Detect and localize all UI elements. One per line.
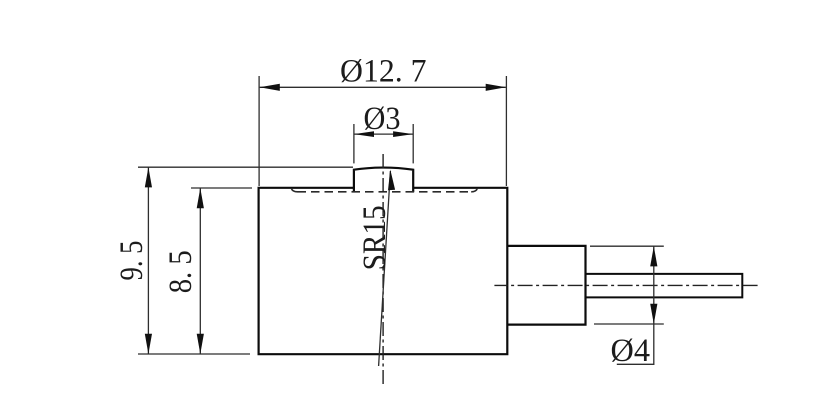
dimension Ø12.7 arrowheads: [260, 84, 280, 91]
dimension Ø3 arrowheads: [354, 131, 374, 137]
dimension Ø4 line with leader tail: [617, 246, 654, 364]
vertical centerline through boss (dash-dot): [382, 153, 384, 384]
dimension 8.5 extension line: [191, 187, 252, 189]
dimension Ø12.7 line: [260, 86, 506, 88]
dimension 9.5 arrowheads: [145, 167, 152, 187]
dimension 8.5 arrowheads: [197, 188, 204, 208]
SR15 leader arrowhead: [388, 170, 395, 191]
boss (top loading button with spherical surface): [354, 168, 413, 193]
dimension 8.5 line: [199, 188, 201, 354]
hidden dashed seam line under top cover: [291, 188, 477, 192]
svg-text:Ø3: Ø3: [364, 101, 401, 137]
svg-text:9. 5: 9. 5: [114, 241, 150, 281]
dimension Ø3 line: [354, 133, 413, 135]
body outline (main housing rectangle): [258, 187, 509, 355]
svg-text:8. 5: 8. 5: [163, 250, 199, 293]
connector (cable bushing rectangle): [507, 246, 585, 325]
svg-text:Ø4: Ø4: [611, 333, 651, 369]
svg-text:Ø12. 7: Ø12. 7: [340, 53, 427, 89]
dimension Ø4 arrowheads: [650, 246, 657, 266]
dimension Ø4 extension lines: [590, 246, 664, 324]
svg-text:SR15: SR15: [357, 205, 393, 270]
dimension 9.5 extension lines: [138, 167, 353, 354]
dimension Ø3 extension lines: [354, 124, 413, 163]
horizontal centerline (dash-dot): [494, 284, 757, 286]
SR15 leader line: [379, 171, 391, 366]
dimension Ø12.7 extension lines: [259, 76, 506, 186]
cable: [586, 274, 743, 298]
dimension 9.5 line: [147, 167, 149, 354]
